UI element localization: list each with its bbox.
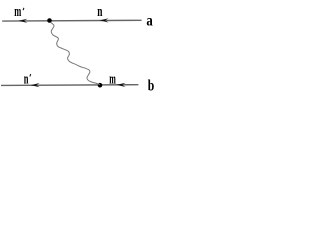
svg-text:m: m bbox=[14, 4, 21, 20]
prime of n' bbox=[29, 74, 32, 76]
vertex dot on line b bbox=[98, 83, 103, 88]
svg-text:b: b bbox=[148, 77, 155, 94]
wire: fermion line b (bottom horizontal line) bbox=[1, 84, 138, 87]
wire: fermion line a (top horizontal line) bbox=[2, 19, 141, 22]
arrow on line a right (below label n) bbox=[100, 18, 109, 22]
arrow on line b left (below label n') bbox=[31, 83, 40, 87]
arrow on line a left (below label m') bbox=[18, 19, 27, 23]
svg-text:m: m bbox=[109, 71, 116, 87]
vertex dot on line a bbox=[47, 18, 52, 23]
prime of m' bbox=[22, 8, 25, 10]
svg-text:n: n bbox=[97, 4, 103, 20]
svg-text:a: a bbox=[146, 12, 152, 29]
photon propagator: wavy line between vertices bbox=[51, 22, 100, 84]
svg-text:n: n bbox=[24, 71, 29, 87]
arrow on line b right (below label m) bbox=[117, 83, 126, 87]
